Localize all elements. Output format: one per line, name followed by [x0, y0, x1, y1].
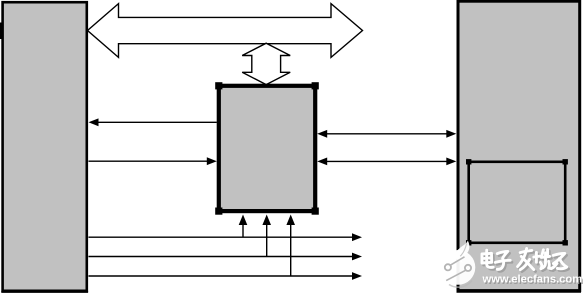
- arrow left block to center: [89, 157, 217, 165]
- bottom line 3: [89, 272, 363, 280]
- bottom line 2: [89, 253, 363, 261]
- svg-text:www.elecfans.com: www.elecfans.com: [482, 274, 583, 286]
- double arrow center-right lower: [317, 158, 456, 166]
- tab on left edge: [0, 23, 2, 40]
- left block: [1, 2, 88, 292]
- bottom line 1: [89, 233, 363, 241]
- big horizontal double arrow (bus): [88, 4, 363, 58]
- branch arrow 3 up into center block: [286, 215, 295, 277]
- arrow center to left block: [89, 118, 217, 126]
- watermark url text: [482, 274, 584, 287]
- watermark logo circle: [441, 241, 476, 288]
- inner square in right block: [466, 159, 568, 245]
- center block: [215, 82, 319, 215]
- branch arrow 1 up into center block: [239, 215, 248, 238]
- double arrow center-right upper: [317, 130, 456, 138]
- branch arrow 2 up into center block: [262, 215, 271, 257]
- right block: [457, 1, 582, 291]
- vertical double arrow: [242, 43, 290, 84]
